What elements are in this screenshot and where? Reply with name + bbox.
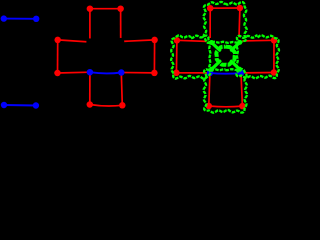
wire M right edge D-F [153,40,155,73]
node a2L [1,102,7,108]
wire R left edge C-E [175,40,178,73]
node R I [206,103,213,110]
wire M right side of bottom arm H-J [121,73,122,106]
node M K1 (hidden inner corner) [86,38,93,45]
node green center circle [216,46,235,64]
node green corner blob 4 [237,67,242,72]
node R H (blue) [238,70,245,77]
node R K2 (hidden inner corner) [235,37,242,44]
wire M right side of top arm B-K2 [120,9,122,42]
node M A [87,5,94,12]
node M C [54,37,61,44]
wire M bottom of left arm E-G [58,71,90,74]
wire green stub 2 [231,42,239,50]
node green corner blob 2 [237,40,242,45]
wire green loop around top arm [203,2,246,43]
node green corner blob 3 [209,67,214,72]
node R J [239,103,246,110]
node R B [237,5,244,12]
node green corner blob 1 [209,40,214,45]
node M D [151,37,158,44]
node M B [117,5,124,12]
node R C [174,37,181,44]
node M I [87,101,94,108]
node R G (blue) [207,70,214,77]
edge a1: blue edge top-left [4,18,36,20]
node M J [119,102,126,109]
node R A [207,5,214,12]
node R F [271,69,278,76]
node R E [173,70,180,77]
node a1L [1,15,7,21]
node M H (blue) [118,69,125,76]
wire M top edge A-B [90,8,121,10]
node M E [54,70,61,77]
node R D [271,37,278,44]
wire R right edge D-F [273,40,275,72]
wire R bottom of left arm E-G [176,72,210,74]
wire green loop around right arm [237,35,280,78]
wire green loop around left arm [171,35,211,78]
wire R top of right arm K2-D [239,39,274,42]
wire M bottom of right arm H-F [121,72,154,74]
wire R right side of top arm B-K2 [239,8,240,41]
wire R left side of bottom arm G-I [209,73,210,106]
node M K2 (hidden inner corner) [117,38,124,45]
node M F [151,70,158,77]
wire R top of left arm C-K1 [177,40,210,41]
wire R bottom edge I-J [209,105,243,108]
wire M left edge C-E [57,40,59,73]
wire R bottom of right arm H-F [241,72,274,74]
wire M bottom edge I-J [90,105,123,107]
wire green stub 4 [231,61,239,69]
wire M left side of bottom arm G-I [89,72,91,104]
wire R left side of top arm A-K1 [209,8,211,41]
node a1R [33,16,39,22]
edge a2: blue edge bottom-left [4,104,36,107]
wire R blue chord G-H [210,72,241,75]
wire green stub 1 [212,43,220,51]
wire R top edge A-B [210,7,240,9]
wire M left side of top arm A-K1 [89,9,91,42]
wire green stub 3 [212,61,220,69]
wire M top of right arm K2-D [121,40,155,42]
wire R right side of bottom arm H-J [241,73,242,106]
node M G (blue) [87,69,94,76]
wire M blue chord G-H [90,72,121,73]
wire M top of left arm C-K1 [58,40,90,42]
wire green loop around bottom arm [204,69,248,113]
node a2R [33,102,39,108]
node R K1 (hidden inner corner) [207,38,214,45]
